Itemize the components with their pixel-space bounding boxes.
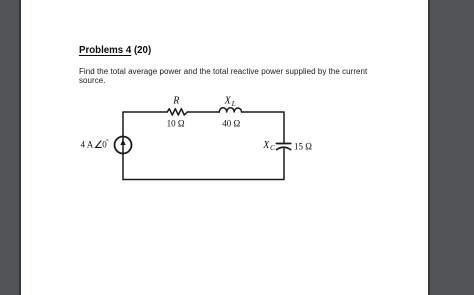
svg-text:L: L: [231, 99, 236, 108]
current source arrowhead: [120, 139, 125, 145]
current source circle: [115, 137, 132, 154]
left gray sidebar: [0, 0, 21, 295]
svg-text:10 Ω: 10 Ω: [167, 119, 185, 129]
wire inductor to top-right corner down to capacitor: [242, 112, 284, 143]
wire capacitor down and bottom wire: [123, 149, 284, 180]
svg-text:15 Ω: 15 Ω: [294, 141, 312, 151]
svg-text:X: X: [262, 140, 270, 151]
svg-text:4 A: 4 A: [81, 140, 94, 150]
resistor R zigzag: [167, 109, 187, 115]
problem statement: [79, 67, 367, 85]
right gray sidebar: [428, 0, 474, 295]
wire between resistor and inductor: [187, 111, 219, 113]
wire left side and top-left segment: [123, 112, 167, 180]
inductor XL humps: [219, 108, 241, 112]
svg-text:°: °: [106, 138, 109, 145]
svg-text:C: C: [270, 143, 276, 152]
capacitor XC top plate: [276, 143, 290, 145]
angle symbol: [96, 141, 102, 148]
svg-text:X: X: [224, 96, 232, 107]
svg-text:40 Ω: 40 Ω: [222, 119, 240, 129]
capacitor XC curved bottom plate: [277, 147, 291, 149]
svg-text:R: R: [172, 96, 179, 107]
title: [79, 45, 151, 56]
